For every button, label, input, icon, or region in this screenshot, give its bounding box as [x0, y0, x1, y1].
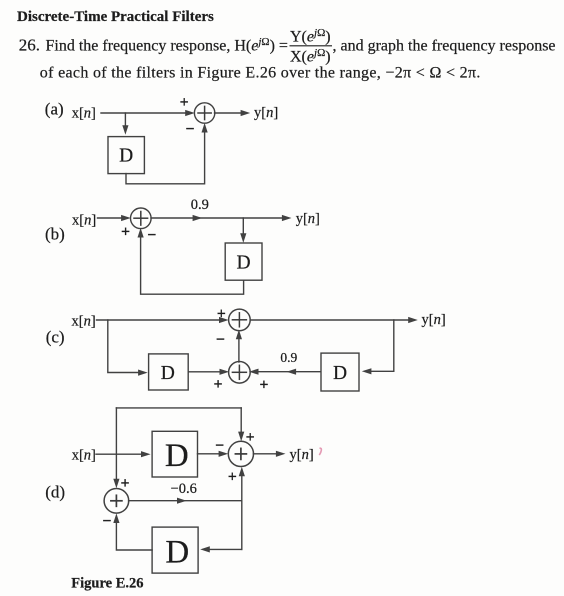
- svg-text:x[n]: x[n]: [72, 314, 96, 330]
- wire branch down-left to right delay D (c): [362, 320, 394, 374]
- svg-text:+: +: [213, 376, 222, 393]
- bottom row wire into bottom delay D (d): [200, 546, 242, 552]
- svg-text:(b): (b): [45, 224, 65, 243]
- svg-text:Find the frequency response, H: Find the frequency response, H(ejΩ) =: [46, 36, 288, 55]
- wire right delay to summer C2 with mid arrow: [249, 369, 320, 375]
- svg-text:D: D: [237, 252, 251, 273]
- wire left delay to summer C2: [188, 369, 229, 375]
- svg-text:Y(ejΩ): Y(ejΩ): [290, 27, 331, 46]
- svg-text:X(ejΩ): X(ejΩ): [290, 47, 331, 66]
- summing junction D1: [228, 441, 253, 466]
- svg-text:x[n]: x[n]: [72, 447, 96, 463]
- svg-text:Figure E.26: Figure E.26: [71, 576, 143, 592]
- fraction bar: [290, 45, 333, 47]
- summing junction A: [194, 103, 214, 123]
- svg-text:26.: 26.: [19, 35, 40, 54]
- svg-text:−: −: [147, 227, 156, 244]
- wire branch down to delay D (b): [240, 218, 246, 243]
- wire top delay to summer D1: [198, 451, 229, 457]
- left vertical wire top to summer D2 (d): [113, 408, 119, 488]
- wire branch down to delay D (a): [122, 113, 128, 135]
- svg-text:+: +: [217, 305, 226, 322]
- wire x[n] to summer B: [98, 215, 131, 221]
- svg-text:−: −: [102, 513, 111, 530]
- svg-text:x[n]: x[n]: [72, 212, 96, 228]
- svg-text:(a): (a): [45, 99, 64, 118]
- bottom delay block D (d): [152, 527, 198, 573]
- vertical wire down to bottom row (d): [241, 501, 243, 550]
- svg-text:x[n]: x[n]: [72, 105, 96, 121]
- delay block D (b): [225, 243, 262, 280]
- svg-text:Discrete-Time Practical Filter: Discrete-Time Practical Filters: [17, 9, 214, 25]
- wire x[n] to summer C1: [97, 317, 229, 323]
- svg-text:D: D: [165, 438, 189, 474]
- feedback wire bottom delay to summer D2 bottom: [113, 513, 152, 550]
- wire branch down-right to left delay D (c): [108, 320, 148, 376]
- wire summer D2 to vertical junction with mid arrow: [129, 498, 242, 504]
- wire summer D1 to y[n]: [253, 451, 285, 457]
- svg-text:+: +: [259, 376, 268, 393]
- right delay block D (c): [321, 353, 359, 391]
- feedback wire D to summer B bottom (b): [138, 228, 244, 294]
- svg-text:D: D: [165, 535, 189, 571]
- svg-text:+: +: [121, 224, 130, 241]
- summing junction B: [131, 208, 152, 229]
- wire summer A to y[n]: [215, 110, 251, 116]
- svg-text:D: D: [161, 363, 175, 384]
- top delay block D (d): [152, 431, 197, 477]
- wire from middle row up into summer D1 bottom: [239, 467, 245, 501]
- svg-text:+: +: [180, 94, 189, 111]
- svg-text:of each of the filters in Figu: of each of the filters in Figure E.26 ov…: [40, 65, 481, 82]
- svg-text:y[n]: y[n]: [254, 105, 278, 121]
- svg-text:−0.6: −0.6: [171, 481, 197, 497]
- stray pink mark after y[n]: [320, 448, 322, 454]
- wire x[n] to summer A: [101, 110, 195, 116]
- summing junction C2: [229, 362, 251, 384]
- svg-text:(d): (d): [45, 482, 65, 501]
- wire summer C2 up to summer C1: [236, 330, 242, 362]
- top feedforward wire (d): [116, 407, 241, 409]
- wire summer B to y[n] with mid arrow: [151, 215, 292, 221]
- svg-text:−: −: [185, 121, 194, 138]
- summing junction C1: [229, 309, 251, 331]
- left delay block D (c): [149, 354, 189, 390]
- feedback wire D to summer A bottom (a): [126, 123, 208, 184]
- svg-text:y[n]: y[n]: [422, 312, 446, 328]
- svg-text:0.9: 0.9: [191, 197, 209, 213]
- svg-text:y[n]: y[n]: [296, 211, 320, 227]
- wire summer C1 to y[n]: [250, 317, 418, 323]
- svg-text:0.9: 0.9: [280, 350, 297, 365]
- wire x[n] to top delay D (d): [96, 451, 151, 457]
- svg-text:D: D: [119, 145, 133, 166]
- svg-text:−: −: [216, 331, 225, 348]
- svg-text:D: D: [333, 363, 347, 384]
- svg-text:y[n]: y[n]: [290, 447, 314, 463]
- svg-text:, and graph the frequency resp: , and graph the frequency response: [333, 37, 556, 54]
- svg-text:+: +: [228, 469, 237, 486]
- delay block D (a): [108, 137, 144, 174]
- wire top feedforward down into summer D1 top: [238, 408, 244, 441]
- summing junction D2: [104, 489, 129, 514]
- svg-text:(c): (c): [46, 328, 65, 347]
